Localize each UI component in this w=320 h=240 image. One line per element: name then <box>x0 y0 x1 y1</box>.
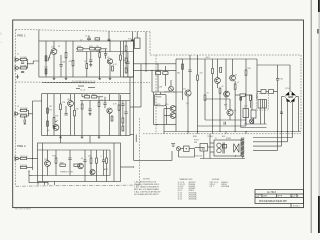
wire <box>170 80 172 86</box>
wire <box>282 96 285 98</box>
wire harness row 2 <box>253 141 288 143</box>
resistor R48 <box>240 94 245 96</box>
wire <box>292 100 294 132</box>
resistor R9 <box>96 48 101 50</box>
wire ground drop <box>28 171 30 183</box>
wire <box>26 60 29 68</box>
preamp2 box <box>42 94 130 136</box>
wire <box>277 132 279 151</box>
svg-text:C38: C38 <box>159 87 162 89</box>
wire <box>189 148 195 150</box>
svg-text:B-7613: B-7613 <box>293 205 300 207</box>
capacitor C6 <box>65 114 68 116</box>
svg-text:Q5: Q5 <box>235 75 238 77</box>
svg-text:SPKR: SPKR <box>226 138 232 140</box>
wire <box>119 41 121 55</box>
wire <box>86 52 88 64</box>
transistor Q10 <box>170 106 176 112</box>
wire <box>287 132 289 142</box>
wire <box>287 100 289 132</box>
ground <box>109 77 112 80</box>
wire <box>225 72 227 110</box>
capacitor C11 <box>83 160 86 162</box>
transistor Q11 <box>170 113 176 119</box>
resistor R24 <box>98 102 100 107</box>
node K <box>245 131 246 132</box>
wire <box>105 55 107 59</box>
svg-text:C36: C36 <box>280 79 283 81</box>
wire <box>130 134 134 136</box>
svg-text:R22 1M: R22 1M <box>20 114 27 116</box>
potentiometer VR3 <box>169 86 174 91</box>
svg-text:BRN: BRN <box>193 136 197 138</box>
svg-text:R32 1M: R32 1M <box>20 165 27 167</box>
resistor R54 <box>95 38 100 40</box>
resistor R22 <box>92 96 97 98</box>
svg-text:.1: .1 <box>100 156 102 158</box>
svg-text:10K: 10K <box>62 62 66 64</box>
wire ground drop <box>47 182 49 185</box>
wire <box>32 114 34 170</box>
wire <box>105 49 107 54</box>
wire <box>136 32 138 38</box>
node F <box>156 63 157 64</box>
wire <box>164 66 166 72</box>
wire <box>97 96 103 98</box>
wire <box>298 102 300 132</box>
transformer T2 <box>217 143 224 154</box>
wire harness row 3 <box>253 145 282 147</box>
wire <box>205 98 230 100</box>
border frame <box>13 20 304 208</box>
svg-text:22K: 22K <box>88 156 92 158</box>
scan edge top <box>318 0 320 12</box>
svg-text:Q6: Q6 <box>234 110 237 112</box>
wire <box>179 156 195 158</box>
wire <box>175 59 177 132</box>
svg-text:Q9: Q9 <box>47 130 49 132</box>
ground <box>81 136 84 139</box>
wire <box>245 59 247 70</box>
svg-text:R2 68K: R2 68K <box>20 65 27 67</box>
resistor R4 <box>45 69 47 74</box>
capacitor C9 <box>124 112 127 114</box>
svg-text:MOD: MOD <box>156 104 161 106</box>
wire <box>164 108 170 110</box>
ground <box>16 75 19 79</box>
ground <box>89 62 92 67</box>
svg-text:R52: R52 <box>224 105 227 107</box>
capacitor C20 <box>108 39 111 40</box>
wire <box>60 110 62 136</box>
svg-text:47: 47 <box>222 86 224 88</box>
resistor R33 <box>96 158 98 163</box>
ground <box>65 77 68 80</box>
wire <box>277 65 279 79</box>
svg-text:J1: J1 <box>17 54 19 56</box>
svg-text:NOTES:: NOTES: <box>143 179 151 181</box>
wire <box>240 97 242 128</box>
svg-text:CR 7: CR 7 <box>209 186 213 188</box>
dashed boundary chassis top <box>150 54 301 56</box>
wire <box>122 101 124 105</box>
wire <box>134 43 135 45</box>
svg-text:R31 10K: R31 10K <box>20 156 28 158</box>
wire <box>53 54 55 77</box>
speaker SP1 <box>234 144 239 153</box>
node S <box>28 171 29 172</box>
resistor R40 <box>182 64 184 69</box>
resistor R12 <box>112 66 114 71</box>
svg-text:RICKENBACKER M8: RICKENBACKER M8 <box>259 199 287 203</box>
wire <box>45 41 47 77</box>
speaker magnet <box>241 139 244 158</box>
wire <box>125 114 127 136</box>
pilot lamp DS1 <box>249 119 253 123</box>
scan blob <box>317 29 320 34</box>
switch S1 <box>269 90 274 94</box>
capacitor C5 <box>24 120 26 123</box>
transistor Q6 <box>45 161 51 167</box>
svg-text:.05: .05 <box>81 158 84 160</box>
wire <box>98 107 100 136</box>
wire <box>81 94 83 97</box>
wire <box>152 91 183 93</box>
resistor R55 <box>222 145 226 149</box>
wire <box>234 81 236 84</box>
svg-text:C4 .05: C4 .05 <box>80 90 85 92</box>
capacitor C15 electrolytic <box>243 107 249 118</box>
svg-text:APPR: APPR <box>278 195 283 198</box>
wire <box>76 48 77 50</box>
wire <box>132 32 134 41</box>
svg-text:Q12: Q12 <box>44 159 48 161</box>
svg-text:VOL: VOL <box>128 39 132 41</box>
wire <box>88 40 90 41</box>
capacitor C12 <box>102 160 105 162</box>
ground <box>59 136 62 139</box>
wire <box>217 83 219 88</box>
ground tie <box>212 120 214 134</box>
wire <box>38 30 40 42</box>
resistor R42 <box>204 95 206 100</box>
transformer T1 <box>258 100 267 109</box>
shield dashed box <box>257 94 269 111</box>
wire <box>197 80 199 131</box>
wire <box>178 151 180 157</box>
wire bus main <box>164 131 301 133</box>
wire <box>266 91 269 93</box>
capacitor C14 <box>224 122 226 125</box>
svg-text:TRANSISTORS: TRANSISTORS <box>179 178 193 181</box>
wire <box>65 58 67 77</box>
node O <box>292 131 293 132</box>
svg-text:1M: 1M <box>49 110 52 112</box>
resistor R34 <box>106 158 108 163</box>
svg-text:NO SIGNAL APPLIED INPUT: NO SIGNAL APPLIED INPUT <box>134 193 160 196</box>
node G <box>187 131 188 132</box>
wire <box>42 143 44 182</box>
wire <box>235 94 240 96</box>
wire <box>195 147 202 149</box>
wire <box>219 126 221 132</box>
svg-text:R41: R41 <box>177 73 180 75</box>
wire ground drop <box>37 182 39 185</box>
ground <box>53 77 56 80</box>
resistor R19 <box>60 104 62 110</box>
bridge rectifier CR1 <box>285 91 297 103</box>
wire <box>277 80 279 132</box>
svg-text:PRE 1: PRE 1 <box>17 34 26 38</box>
resistor R20 <box>74 110 76 116</box>
wire <box>99 57 101 77</box>
svg-text:10K: 10K <box>76 109 80 111</box>
svg-text:C2 10: C2 10 <box>85 36 90 38</box>
wire <box>244 123 267 125</box>
ground tie <box>245 132 247 134</box>
wire harness row 4 <box>253 149 278 151</box>
wire <box>122 112 124 118</box>
resistor R18 <box>47 121 49 126</box>
resistor R5 <box>65 52 67 58</box>
wire <box>109 150 111 176</box>
resistor R41 <box>197 75 199 80</box>
svg-text:R1 68K: R1 68K <box>20 57 27 59</box>
mixer column box <box>124 41 134 77</box>
wire <box>245 75 247 126</box>
resistor R13 <box>120 55 122 60</box>
node N <box>287 131 288 132</box>
wire <box>65 41 67 52</box>
parts list diodes <box>209 179 229 188</box>
wire <box>292 132 294 138</box>
svg-text:R7: R7 <box>58 46 60 48</box>
wire <box>257 91 261 93</box>
transistor Q7 <box>185 90 191 96</box>
wire <box>127 52 129 63</box>
dash-dot chassis bottom <box>16 185 142 186</box>
svg-text:220: 220 <box>200 73 203 75</box>
capacitor C19 <box>87 38 91 39</box>
resistor R14 <box>20 109 26 111</box>
svg-text:Q4: Q4 <box>186 103 188 105</box>
wire <box>298 97 300 103</box>
resistor R31 <box>74 164 79 166</box>
ground <box>171 144 175 147</box>
resistor R29 <box>55 158 57 163</box>
svg-text:PRE 2: PRE 2 <box>17 144 26 148</box>
transistor Q9 <box>230 75 236 81</box>
wire <box>89 101 91 110</box>
wire <box>121 166 134 168</box>
wire <box>89 136 91 144</box>
notes block <box>134 179 161 196</box>
wire <box>84 162 86 182</box>
dashed chassis left <box>155 55 157 134</box>
wire <box>27 158 33 160</box>
svg-text:47K: 47K <box>62 102 66 104</box>
wire <box>86 69 88 77</box>
wire <box>197 132 199 134</box>
transistor Q13 <box>78 163 84 169</box>
wire <box>109 64 111 77</box>
wire <box>27 110 29 116</box>
capacitor C21 <box>131 39 134 40</box>
ground tie <box>225 132 227 134</box>
transistor Q14 <box>90 169 95 174</box>
wire <box>70 94 72 101</box>
jack J1 <box>15 57 20 62</box>
capacitor C22 <box>121 104 124 106</box>
wire <box>140 64 142 107</box>
wire <box>125 63 127 68</box>
wire <box>80 100 130 102</box>
wire <box>90 163 92 175</box>
wire <box>55 163 57 175</box>
resistor R36 <box>125 58 127 63</box>
wire <box>109 94 111 101</box>
dashed divider PRE1/PRE2 <box>16 81 151 84</box>
ground <box>98 136 101 139</box>
resistor R35 <box>125 46 127 51</box>
wire <box>204 100 206 120</box>
resistor R56 <box>250 95 252 100</box>
wire <box>113 143 115 182</box>
resistor R57 <box>240 97 242 100</box>
wire <box>118 94 120 105</box>
wire <box>24 116 26 120</box>
node R <box>133 166 134 167</box>
svg-text:C30: C30 <box>244 106 247 108</box>
svg-text:2.2K: 2.2K <box>44 67 48 69</box>
wire <box>194 149 196 157</box>
wire <box>187 96 189 131</box>
wire <box>104 105 106 109</box>
wire <box>251 95 253 110</box>
wire <box>60 66 62 77</box>
capacitor C25 <box>21 71 24 72</box>
wire harness row 1 <box>253 137 293 139</box>
svg-text:R60 10K: R60 10K <box>195 156 203 158</box>
edge smudge <box>0 33 1 35</box>
resistor R3 <box>45 56 47 61</box>
ground row <box>76 86 95 89</box>
capacitor C4 <box>126 62 129 64</box>
resistor R21 <box>84 96 89 98</box>
jack J3 <box>15 111 20 116</box>
node P <box>235 155 236 156</box>
svg-text:.02: .02 <box>122 53 125 55</box>
wire <box>242 157 244 159</box>
svg-text:Q1: Q1 <box>51 47 54 49</box>
wire <box>189 72 191 91</box>
wire <box>210 142 214 144</box>
dashed corner vertical <box>149 32 151 55</box>
resistor R17 <box>47 108 49 113</box>
wire <box>281 132 283 147</box>
wire <box>96 163 98 181</box>
node E <box>151 70 152 71</box>
wire <box>208 146 215 148</box>
resistor R6 <box>72 60 74 66</box>
svg-text:T2: T2 <box>215 138 217 140</box>
edge smudge <box>0 42 3 44</box>
wire <box>108 31 110 41</box>
wire <box>29 182 48 184</box>
intensity pot circuit: resistor R38 <box>156 72 161 75</box>
wire <box>103 162 105 176</box>
potentiometer VR2 <box>53 118 57 127</box>
resistor R1 <box>20 59 26 61</box>
wire <box>245 94 252 96</box>
title block <box>255 190 304 208</box>
wire <box>81 109 83 136</box>
wire <box>145 32 147 72</box>
jack J5 <box>15 156 20 161</box>
parts list transistors <box>178 178 197 200</box>
node H <box>197 131 198 132</box>
wire <box>212 59 214 68</box>
resistor R37 <box>125 68 127 73</box>
svg-text:2N5232A: 2N5232A <box>189 198 198 201</box>
resistor R44 <box>219 88 221 93</box>
node M <box>281 131 282 132</box>
resistor R10 <box>86 64 88 69</box>
transistor Q4 <box>107 108 112 113</box>
resistor R25 <box>111 116 113 121</box>
wire <box>253 118 255 124</box>
wire <box>257 64 290 66</box>
dashed boundary left <box>15 30 17 186</box>
capacitor C16 electrolytic <box>251 108 256 118</box>
svg-text:Q2: Q2 <box>107 57 110 59</box>
node Q <box>173 91 174 92</box>
wire <box>101 48 107 50</box>
relay K1 <box>184 146 190 152</box>
wire <box>125 51 127 58</box>
wire <box>154 124 177 126</box>
resistor R11 <box>99 53 101 58</box>
svg-text:№ 7613: № 7613 <box>267 191 277 194</box>
wire <box>83 48 90 50</box>
svg-text:RE 1969 SCHEM: RE 1969 SCHEM <box>15 209 31 211</box>
wire <box>47 166 49 175</box>
wire <box>182 59 184 100</box>
svg-text:4.7K: 4.7K <box>113 104 117 106</box>
wire ground drop <box>43 182 45 185</box>
resistor R32 <box>90 158 92 163</box>
resistor R47 <box>245 70 247 75</box>
wire <box>264 108 266 124</box>
wire <box>65 106 67 114</box>
wire <box>76 51 134 53</box>
wire <box>81 101 83 105</box>
svg-text:1N4738A: 1N4738A <box>221 185 230 188</box>
wire <box>157 75 159 93</box>
resistor R26 <box>118 105 120 110</box>
wire <box>55 150 57 158</box>
wire <box>157 64 159 72</box>
wire <box>296 96 299 98</box>
svg-text:R5 1M SEE NOTE 3 C4 .05: R5 1M SEE NOTE 3 C4 .05 <box>72 81 95 83</box>
svg-text:TREM: TREM <box>156 96 162 98</box>
capacitor C18 <box>280 112 283 114</box>
svg-text:AMP: AMP <box>104 168 109 171</box>
dashed vertical mid <box>138 118 140 185</box>
wire <box>106 150 108 158</box>
wire <box>69 150 71 158</box>
wire <box>47 94 49 136</box>
